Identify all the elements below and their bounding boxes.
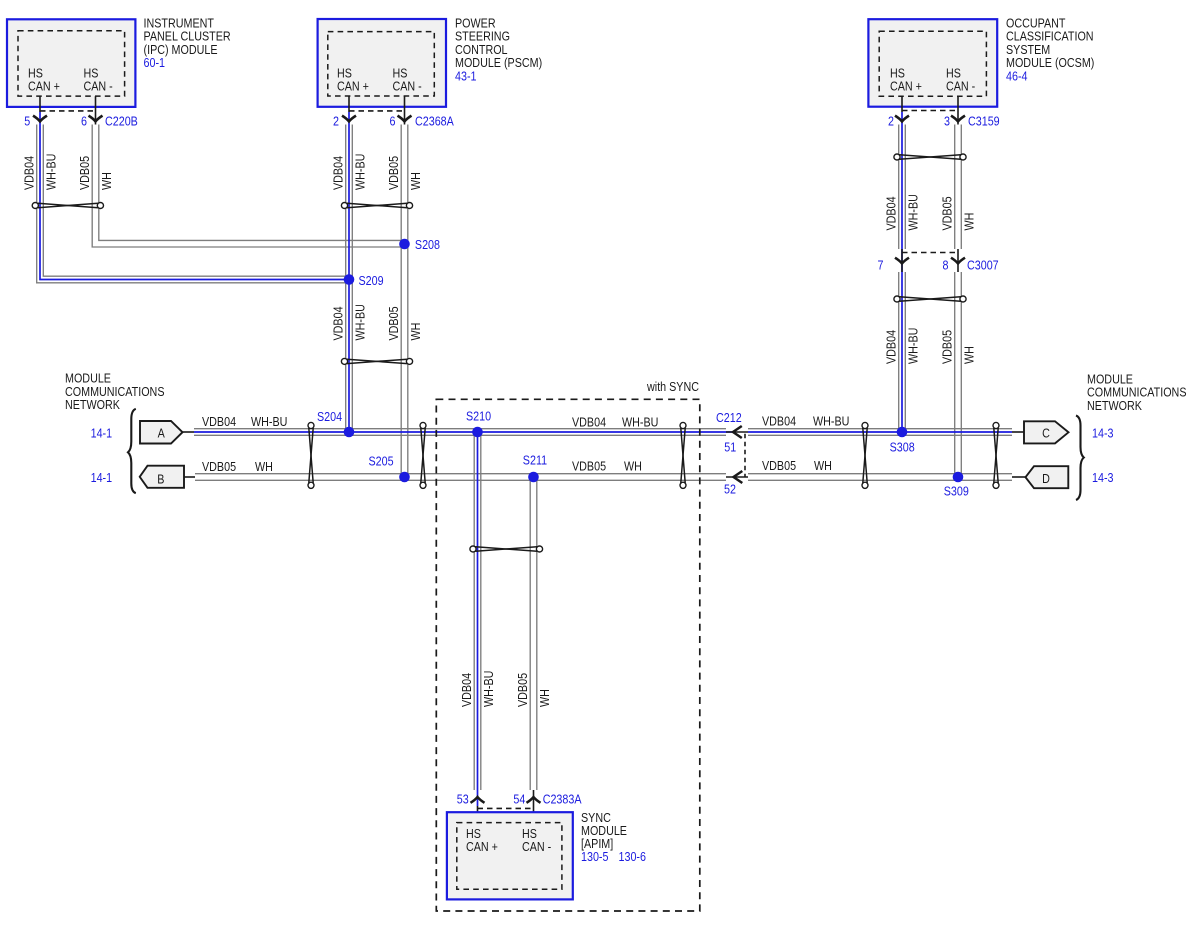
svg-text:WH-BU: WH-BU — [906, 194, 921, 230]
svg-text:VDB05: VDB05 — [77, 156, 92, 190]
svg-text:CAN +: CAN + — [28, 79, 60, 94]
svg-text:VDB05: VDB05 — [940, 330, 955, 364]
connector C2368A at PSCM — [342, 96, 412, 124]
splice S209 label — [359, 273, 384, 288]
wire VDB04 WH-BU from IPC pin 5 to splice S209 — [37, 125, 349, 283]
wire labels VDB05 WH between C212 and S309 — [762, 458, 832, 473]
svg-text:VDB04: VDB04 — [331, 306, 346, 340]
svg-text:VDB05: VDB05 — [572, 459, 606, 474]
twisted pair symbol below OCSM — [894, 154, 966, 160]
in-line connector C3007 — [895, 249, 965, 272]
svg-text:2: 2 — [888, 113, 894, 128]
wire labels VDB04 WH-BU above SYNC pin 53 — [459, 671, 496, 707]
connector C3159 label — [968, 113, 1000, 128]
module IPC name label — [144, 16, 231, 71]
svg-text:VDB05: VDB05 — [386, 156, 401, 190]
svg-text:WH: WH — [99, 172, 114, 190]
svg-text:S208: S208 — [415, 237, 440, 252]
pin 8 label at C3007 — [943, 258, 949, 273]
module communications network label right — [1087, 372, 1187, 414]
wire labels VDB05 WH above S205 — [386, 306, 423, 340]
splice S210 label — [466, 409, 491, 424]
svg-text:WH-BU: WH-BU — [251, 414, 287, 429]
splice S205 label — [369, 454, 394, 469]
wire labels VDB04 WH-BU above C3007 pin 7 — [884, 194, 921, 230]
splice S205 — [399, 472, 410, 483]
bus wire VDB05 WH from connector B to connector C212 pin 52 — [195, 474, 726, 481]
svg-text:C: C — [1042, 425, 1050, 440]
svg-text:WH-BU: WH-BU — [353, 154, 368, 190]
svg-text:S209: S209 — [359, 273, 384, 288]
splice S209 — [344, 274, 355, 285]
svg-text:14-1: 14-1 — [91, 470, 113, 485]
svg-text:6: 6 — [390, 114, 396, 129]
twisted pair symbol below PSCM — [341, 203, 412, 209]
connector C3159 at OCSM — [895, 96, 965, 124]
wire labels VDB05 WH below PSCM pin 6 — [386, 156, 423, 190]
svg-text:C3159: C3159 — [968, 113, 1000, 128]
svg-text:C220B: C220B — [105, 114, 138, 129]
svg-text:S308: S308 — [890, 440, 915, 455]
svg-text:7: 7 — [878, 258, 884, 273]
svg-text:CAN -: CAN - — [946, 79, 975, 94]
wire labels VDB05 WH above C3007 pin 8 — [940, 196, 977, 230]
svg-text:CAN -: CAN - — [522, 839, 551, 854]
svg-text:S309: S309 — [944, 483, 969, 498]
with SYNC option dashed box — [436, 399, 700, 911]
twisted pair symbol above S204/S205 — [341, 358, 412, 364]
module IPC (Instrument Panel Cluster) box — [7, 19, 135, 107]
splice S210 — [472, 427, 483, 438]
svg-text:WH: WH — [962, 346, 977, 364]
svg-text:VDB05: VDB05 — [202, 459, 236, 474]
svg-text:43-1: 43-1 — [455, 68, 477, 83]
wire labels VDB04 WH-BU between S210 and C212 — [572, 415, 658, 430]
splice S208 — [399, 239, 410, 250]
connector C220B label — [105, 114, 138, 129]
svg-text:54: 54 — [513, 792, 525, 807]
svg-text:VDB04: VDB04 — [884, 196, 899, 230]
twisted pair symbol below C3007 — [894, 296, 966, 302]
wire labels VDB05 WH above S309 — [940, 330, 977, 364]
wire VDB05 WH from splice S211 down to SYNC pin 54 — [530, 477, 537, 790]
svg-text:S205: S205 — [369, 454, 394, 469]
svg-text:WH-BU: WH-BU — [813, 414, 849, 429]
module PSCM name label — [455, 16, 542, 84]
svg-text:with SYNC: with SYNC — [646, 379, 699, 394]
svg-text:8: 8 — [943, 258, 949, 273]
wire labels VDB05 WH between B and S205 — [202, 459, 273, 474]
pin 3 label at C3159 — [944, 113, 950, 128]
svg-text:C3007: C3007 — [967, 258, 999, 273]
wire labels VDB05 WH between S211 and C212 — [572, 459, 642, 474]
svg-text:WH: WH — [814, 458, 832, 473]
wire VDB05 WH from IPC pin 6 to splice S208 — [92, 125, 404, 248]
pin 54 label at C2383A — [513, 792, 525, 807]
svg-text:WH-BU: WH-BU — [44, 154, 59, 190]
module OCSM (Occupant Classification System) box — [868, 19, 997, 107]
svg-text:14-3: 14-3 — [1092, 425, 1114, 440]
svg-text:WH-BU: WH-BU — [906, 328, 921, 364]
module PSCM (Power Steering Control Module) box — [318, 19, 446, 107]
page reference 14-1 at connector A — [91, 425, 113, 440]
page reference 14-3 at connector C — [1092, 425, 1114, 440]
connector C220B at IPC — [33, 96, 103, 124]
splice S211 — [528, 472, 539, 483]
wire VDB04 WH-BU from splice S210 down to SYNC pin 53 — [474, 432, 481, 790]
svg-text:A: A — [158, 425, 165, 440]
svg-text:VDB04: VDB04 — [762, 414, 796, 429]
brace left — [128, 409, 136, 493]
connector C2383A label — [543, 792, 582, 807]
bus wire VDB05 WH from connector C212 to connector D — [748, 474, 1026, 481]
wire VDB05 WH from OCSM pin 3 to connector C3007 pin 8 — [955, 125, 962, 250]
pin 53 label at C2383A — [457, 792, 469, 807]
svg-text:VDB04: VDB04 — [22, 156, 37, 190]
wire labels VDB04 WH-BU below IPC pin 5 — [22, 154, 59, 190]
svg-text:CAN +: CAN + — [890, 79, 922, 94]
network connector B — [140, 466, 195, 488]
splice S308 label — [890, 440, 915, 455]
label with SYNC — [646, 379, 699, 394]
svg-text:46-4: 46-4 — [1006, 68, 1028, 83]
network connector A — [140, 421, 183, 444]
pin 2 label at C2368A — [333, 114, 339, 129]
svg-text:WH-BU: WH-BU — [353, 304, 368, 340]
svg-text:B: B — [157, 472, 164, 487]
svg-text:VDB05: VDB05 — [515, 673, 530, 707]
wire VDB04 WH-BU from C3007 pin 7 down to splice S308 — [899, 272, 906, 432]
svg-text:2: 2 — [333, 114, 339, 129]
twisted pair symbol on bus left of S204 — [308, 422, 314, 488]
wire VDB04 WH-BU from OCSM pin 2 to connector C3007 pin 7 — [899, 125, 906, 433]
wire labels VDB04 WH-BU below PSCM pin 2 — [331, 154, 368, 190]
svg-text:CAN +: CAN + — [337, 79, 369, 94]
twisted pair symbol on bus left of C212 — [680, 422, 686, 488]
wire labels VDB05 WH below IPC pin 6 — [77, 156, 114, 190]
twisted pair symbol above SYNC module — [470, 546, 543, 552]
svg-text:CAN +: CAN + — [466, 839, 498, 854]
page reference 14-1 at connector B — [91, 470, 113, 485]
svg-text:WH-BU: WH-BU — [622, 415, 658, 430]
splice S308 — [897, 427, 908, 438]
svg-text:D: D — [1042, 471, 1050, 486]
svg-text:VDB04: VDB04 — [884, 330, 899, 364]
pin 6 label at C220B — [81, 114, 87, 129]
connector C3007 label — [967, 258, 999, 273]
svg-text:WH-BU: WH-BU — [481, 671, 496, 707]
connector C2383A at SYNC module — [471, 790, 541, 823]
svg-text:CAN -: CAN - — [84, 79, 113, 94]
wire labels VDB04 WH-BU between C212 and S308 — [762, 414, 849, 429]
splice S204 label — [317, 409, 342, 424]
svg-text:53: 53 — [457, 792, 469, 807]
svg-text:3: 3 — [944, 113, 950, 128]
wire VDB05 WH from PSCM pin 6 down to splice S205 — [401, 125, 408, 478]
svg-text:VDB05: VDB05 — [762, 458, 796, 473]
module OCSM name label — [1006, 16, 1094, 84]
svg-text:VDB04: VDB04 — [331, 156, 346, 190]
svg-text:NETWORK: NETWORK — [65, 397, 120, 412]
connector C2368A label — [415, 114, 454, 129]
svg-text:WH: WH — [624, 459, 642, 474]
svg-text:VDB04: VDB04 — [572, 415, 606, 430]
svg-text:C2368A: C2368A — [415, 114, 454, 129]
svg-text:C2383A: C2383A — [543, 792, 582, 807]
wire labels VDB04 WH-BU between A and S204 — [202, 414, 287, 429]
svg-text:VDB04: VDB04 — [459, 673, 474, 707]
svg-text:60-1: 60-1 — [144, 55, 166, 70]
svg-text:S211: S211 — [523, 453, 547, 468]
svg-text:WH: WH — [408, 172, 423, 190]
svg-text:C212: C212 — [716, 410, 742, 425]
pin 6 label at C2368A — [390, 114, 396, 129]
wire VDB05 WH from C3007 pin 8 down to splice S309 — [955, 272, 962, 477]
pin 5 label at C220B — [24, 114, 30, 129]
network connector C — [1024, 421, 1069, 443]
svg-text:WH: WH — [537, 689, 552, 707]
svg-text:VDB05: VDB05 — [386, 306, 401, 340]
network connector D — [1026, 466, 1069, 488]
in-line connector C212 — [726, 426, 748, 483]
svg-text:14-1: 14-1 — [91, 425, 113, 440]
brace right — [1076, 416, 1084, 501]
svg-text:S210: S210 — [466, 409, 491, 424]
svg-text:130-6: 130-6 — [619, 849, 647, 864]
pin 52 label at C212 — [724, 482, 736, 497]
wire labels VDB05 WH above SYNC pin 54 — [515, 673, 552, 707]
module communications network label left — [65, 371, 165, 413]
svg-text:VDB04: VDB04 — [202, 414, 236, 429]
bus wire VDB04 WH-BU from connector C212 to connector C — [748, 429, 1024, 436]
pin 7 label at C3007 — [878, 258, 884, 273]
twisted pair symbol on bus right of C212 — [862, 422, 868, 488]
splice S208 label — [415, 237, 440, 252]
svg-text:14-3: 14-3 — [1092, 470, 1114, 485]
svg-text:VDB05: VDB05 — [940, 196, 955, 230]
svg-text:130-5: 130-5 — [581, 849, 609, 864]
svg-text:S204: S204 — [317, 409, 342, 424]
svg-text:52: 52 — [724, 482, 736, 497]
splice S309 label — [944, 483, 969, 498]
pin 2 label at C3159 — [888, 113, 894, 128]
bus wire VDB04 WH-BU from connector A to connector C212 pin 51 — [183, 429, 734, 436]
svg-text:5: 5 — [24, 114, 30, 129]
svg-text:WH: WH — [255, 459, 273, 474]
svg-text:51: 51 — [724, 440, 736, 455]
connector C212 label — [716, 410, 742, 425]
splice S309 — [953, 472, 964, 483]
svg-text:WH: WH — [962, 213, 977, 231]
splice S211 label — [523, 453, 547, 468]
svg-text:WH: WH — [408, 323, 423, 341]
svg-text:6: 6 — [81, 114, 87, 129]
twisted pair symbol on bus right of S309 — [993, 422, 999, 488]
module SYNC name label — [581, 810, 646, 864]
svg-text:NETWORK: NETWORK — [1087, 398, 1142, 413]
splice S204 — [344, 427, 355, 438]
svg-text:CAN -: CAN - — [393, 79, 422, 94]
module SYNC (APIM) box — [447, 812, 573, 899]
wire labels VDB04 WH-BU above S204 — [331, 304, 368, 340]
wire VDB04 WH-BU from PSCM pin 2 down to splice S204 — [346, 125, 353, 433]
twisted pair symbol below IPC — [32, 203, 103, 209]
wire labels VDB04 WH-BU above S308 — [884, 328, 921, 364]
twisted pair symbol on bus right of S205 — [420, 422, 426, 488]
page reference 14-3 at connector D — [1092, 470, 1114, 485]
pin 51 label at C212 — [724, 440, 736, 455]
